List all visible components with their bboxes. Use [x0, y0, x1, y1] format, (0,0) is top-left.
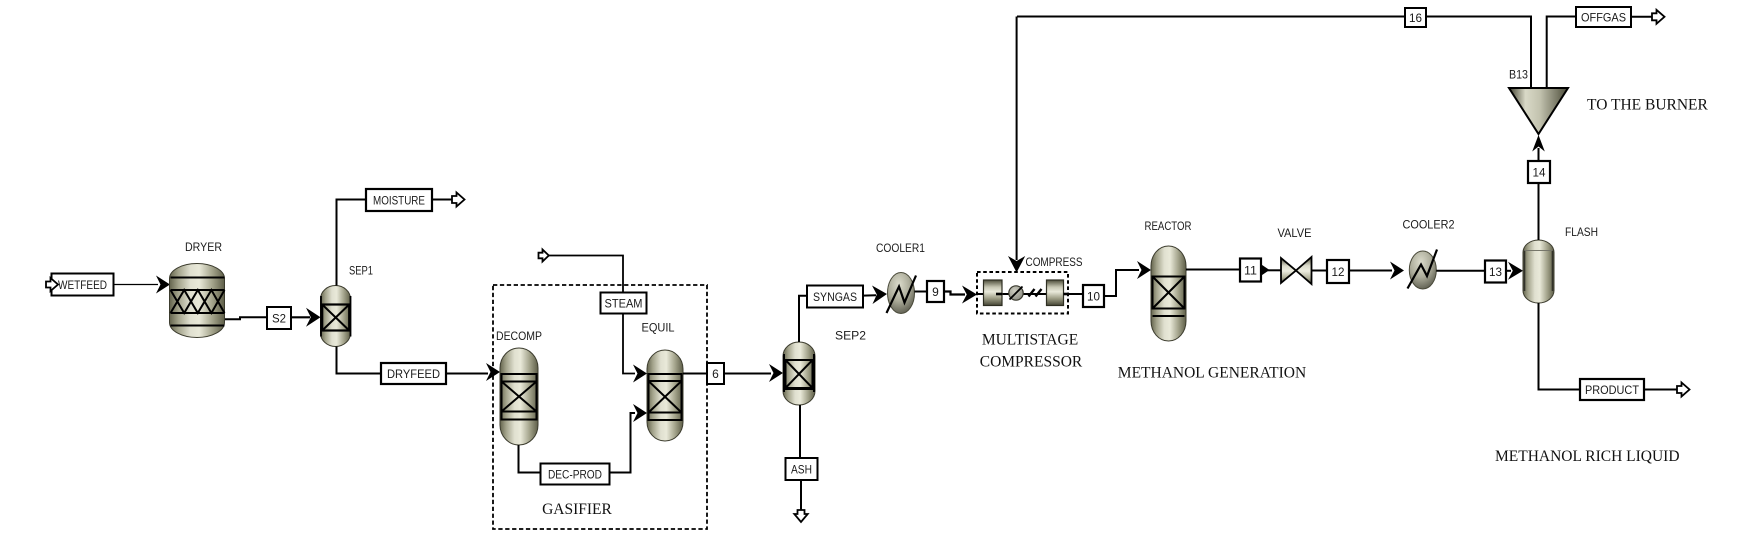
separator SEP1 [321, 264, 374, 347]
svg-text:EQUIL: EQUIL [642, 321, 675, 335]
wire DEC-PROD to EQUIL [610, 413, 636, 473]
outlet arrow OFFGAS [1652, 10, 1665, 24]
arrowhead into SEP2 [769, 364, 783, 382]
stream label STEAM [601, 293, 647, 314]
wire SEP2 to ASH [799, 405, 801, 458]
wire 10 to REACTOR [1104, 270, 1139, 296]
stream label S2 [267, 307, 291, 329]
stream label 14 [1528, 161, 1550, 183]
cooler COOLER2 [1403, 218, 1455, 290]
cooler COOLER1 [876, 241, 925, 314]
stream label 9 [927, 281, 944, 302]
svg-text:WETFEED: WETFEED [58, 278, 107, 292]
svg-text:DRYER: DRYER [185, 240, 222, 254]
svg-text:16: 16 [1409, 11, 1422, 25]
svg-text:OFFGAS: OFFGAS [1581, 10, 1626, 24]
arrowhead into EQUIL bottom inlet [633, 404, 647, 422]
wire COOLER1 to 9 [915, 291, 928, 293]
svg-text:9: 9 [932, 285, 939, 299]
splitter B13 [1509, 67, 1568, 134]
arrowhead into DECOMP [486, 363, 500, 381]
svg-text:VALVE: VALVE [1278, 226, 1312, 240]
svg-text:GASIFIER: GASIFIER [542, 501, 612, 518]
arrowhead into COMPRESS top (down) [1008, 256, 1025, 273]
wire FLASH to PRODUCT [1539, 303, 1581, 390]
stream label DEC-PROD [541, 464, 610, 485]
svg-text:6: 6 [712, 367, 719, 381]
dashed unit GASIFIER [493, 285, 707, 529]
stream label 12 [1327, 260, 1349, 283]
wire DECOMP to DEC-PROD [519, 445, 541, 473]
svg-text:COOLER1: COOLER1 [876, 241, 925, 255]
svg-text:PRODUCT: PRODUCT [1585, 383, 1640, 397]
wire EQUIL to 6 [683, 373, 707, 375]
wire S2 to SEP1 [291, 316, 310, 318]
svg-text:SEP1: SEP1 [349, 264, 373, 278]
wire 14 to B13 [1538, 148, 1540, 161]
svg-text:SEP2: SEP2 [835, 329, 866, 343]
svg-text:REACTOR: REACTOR [1145, 219, 1192, 233]
separator SEP2 [783, 329, 866, 406]
wire B13 to OFFGAS [1547, 17, 1576, 89]
svg-text:S2: S2 [272, 311, 286, 325]
wire B13 to 16 recycle top line [1017, 17, 1531, 89]
arrowhead into DRYER [156, 276, 170, 294]
stream label 10 [1083, 285, 1104, 307]
arrowhead into SEP1 [306, 308, 321, 327]
wire steam feed to STEAM [549, 256, 624, 293]
wire DRYFEED to DECOMP [446, 373, 488, 375]
wire SEP1 to MOISTURE [337, 200, 367, 286]
arrowhead into B13 (up) [1532, 135, 1545, 152]
wire DRYER to S2 [225, 317, 267, 319]
outlet arrow ASH (down) [794, 510, 807, 522]
svg-text:STEAM: STEAM [605, 296, 643, 310]
arrowhead into COOLER2 [1390, 262, 1404, 280]
dashed unit MULTISTAGE COMPRESSOR [977, 272, 1083, 371]
arrowhead after 11 [1261, 264, 1270, 275]
outlet arrow MOISTURE [452, 193, 465, 207]
svg-text:13: 13 [1489, 265, 1502, 279]
stream label DRYFEED [381, 363, 446, 384]
svg-text:MOISTURE: MOISTURE [373, 193, 425, 207]
arrowhead into COMPRESS [962, 286, 977, 304]
wire WETFEED to DRYER [113, 284, 158, 286]
arrowhead into EQUIL top inlet [633, 365, 647, 383]
svg-text:DECOMP: DECOMP [496, 329, 542, 343]
wire SEP1 to DRYFEED [337, 347, 382, 374]
valve VALVE [1278, 226, 1312, 284]
wire FLASH to 14 [1538, 183, 1540, 240]
wire 6 to SEP2 [724, 373, 771, 375]
feed arrow WETFEED [46, 278, 58, 291]
stream label WETFEED [52, 274, 114, 296]
wire recycle 16 down into COMPRESS [1016, 17, 1018, 261]
flash drum FLASH [1523, 225, 1598, 303]
wire OFFGAS outlet [1631, 16, 1652, 18]
svg-text:METHANOL RICH LIQUID: METHANOL RICH LIQUID [1495, 448, 1680, 465]
svg-text:ASH: ASH [791, 463, 812, 477]
stream label SYNGAS [807, 286, 863, 308]
wire 9 to COMPRESS [944, 292, 965, 295]
reactor REACTOR [1145, 219, 1192, 341]
stream label 13 [1485, 261, 1506, 283]
wire SEP2 to SYNGAS [799, 296, 807, 342]
stream label 6 [707, 363, 724, 384]
svg-text:10: 10 [1087, 289, 1100, 303]
wire ASH outlet [800, 480, 802, 510]
arrowhead into COOLER1 [872, 286, 887, 305]
wire 13 to FLASH [1506, 270, 1511, 272]
dryer DRYER [170, 240, 225, 338]
wire PRODUCT outlet [1644, 389, 1677, 391]
svg-text:14: 14 [1533, 165, 1546, 179]
svg-text:12: 12 [1332, 265, 1345, 279]
svg-text:COOLER2: COOLER2 [1403, 218, 1455, 232]
stream label 11 [1240, 259, 1261, 282]
svg-text:COMPRESSOR: COMPRESSOR [980, 354, 1083, 371]
svg-text:COMPRESS: COMPRESS [1026, 255, 1083, 269]
svg-text:DRYFEED: DRYFEED [387, 367, 440, 381]
wire 12 to COOLER2 [1349, 270, 1392, 272]
stream label PRODUCT [1580, 379, 1644, 400]
svg-text:DEC-PROD: DEC-PROD [548, 467, 602, 481]
stream label OFFGAS [1576, 7, 1631, 27]
arrowhead into REACTOR [1137, 261, 1151, 279]
wire STEAM to EQUIL [623, 314, 635, 374]
svg-text:METHANOL GENERATION: METHANOL GENERATION [1118, 365, 1306, 382]
compressor COMPRESS internals [978, 280, 1083, 306]
outlet arrow PRODUCT [1677, 383, 1690, 397]
svg-text:FLASH: FLASH [1565, 225, 1598, 239]
arrowhead into FLASH [1508, 262, 1523, 280]
svg-text:B13: B13 [1509, 67, 1528, 81]
svg-text:TO THE BURNER: TO THE BURNER [1587, 97, 1709, 114]
stream label ASH [786, 458, 818, 480]
wire REACTOR to 11 [1186, 269, 1240, 271]
svg-text:11: 11 [1244, 263, 1257, 277]
feed arrow STEAM [539, 250, 549, 262]
stream label MOISTURE [366, 189, 432, 211]
svg-text:SYNGAS: SYNGAS [813, 290, 857, 304]
wire MOISTURE outlet [432, 199, 452, 201]
reactor EQUIL [642, 321, 684, 442]
stream label 16 [1405, 8, 1426, 27]
wire SYNGAS to COOLER1 [863, 294, 876, 296]
wire 11 to VALVE [1267, 269, 1281, 271]
wire COMPRESS to 10 [1068, 293, 1083, 295]
wire VALVE to 12 [1312, 270, 1328, 272]
reactor DECOMP [496, 329, 542, 445]
svg-text:MULTISTAGE: MULTISTAGE [982, 332, 1078, 349]
wire COOLER2 to 13 [1436, 270, 1485, 272]
